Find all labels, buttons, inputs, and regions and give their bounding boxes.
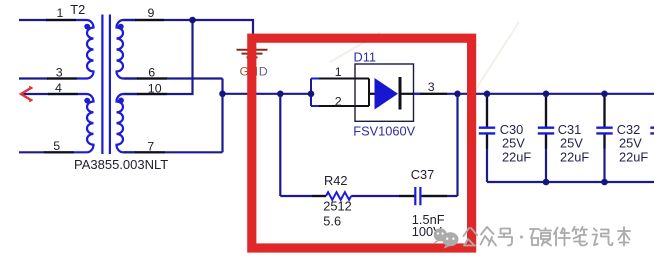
wire C30 riser xyxy=(486,94,488,182)
svg-text:22uF: 22uF xyxy=(502,150,531,165)
svg-text:25V: 25V xyxy=(619,136,642,151)
faint background watermark stroke xyxy=(330,33,380,62)
glyph 公 xyxy=(464,228,478,246)
svg-text:T2: T2 xyxy=(70,2,85,17)
svg-text:25V: 25V xyxy=(560,136,583,151)
wire C32 riser xyxy=(603,94,605,182)
wire cathode output rail xyxy=(458,93,654,95)
svg-text:2512: 2512 xyxy=(323,199,351,214)
wire snubber right riser xyxy=(456,94,458,196)
junction node bracket xyxy=(308,91,315,98)
pin stub C32 xyxy=(603,97,605,149)
watermark wechat icon bubble 2 xyxy=(442,232,458,248)
capacitor C30 plates xyxy=(479,128,495,134)
svg-text:7: 7 xyxy=(147,139,154,153)
svg-text:1: 1 xyxy=(57,6,64,20)
svg-text:6: 6 xyxy=(148,66,155,80)
glyph 件 xyxy=(554,228,570,246)
capacitor partial at right edge xyxy=(650,128,654,134)
pin stub diode pin3 xyxy=(420,93,447,95)
svg-text:3: 3 xyxy=(56,66,63,80)
diode D11 bracket pins 1-2 xyxy=(311,79,375,107)
glyph 硬 xyxy=(530,228,551,246)
svg-text:4: 4 xyxy=(55,81,62,95)
pin stub pin7 xyxy=(135,151,165,153)
junction node top rail xyxy=(189,17,196,24)
junction node C32 top xyxy=(601,91,608,98)
svg-text:PA3855.003NLT: PA3855.003NLT xyxy=(74,157,168,172)
glyph 本 xyxy=(618,227,630,246)
glyph 笔 xyxy=(573,227,588,246)
svg-text:9: 9 xyxy=(148,6,155,20)
wire pin4 lead xyxy=(23,93,49,95)
bright pin segment diode pin3 xyxy=(414,93,422,95)
svg-text:5: 5 xyxy=(53,139,60,153)
watermark text 公众号·硬件笔记本 (vector strokes) xyxy=(464,227,631,246)
wire pin3 lead xyxy=(19,77,48,79)
pin stub C37 right xyxy=(422,195,447,197)
wire snubber bottom row right xyxy=(422,195,458,197)
bright pin segments right windings xyxy=(123,20,138,152)
transformer polarity dot pin4 xyxy=(84,98,90,104)
svg-text:25V: 25V xyxy=(502,136,525,151)
diode D11 body box xyxy=(355,64,414,121)
wire pin7 horizontal xyxy=(123,151,222,153)
diode D11 cathode stub xyxy=(402,93,414,95)
ground symbol GND xyxy=(237,50,268,58)
svg-text:C37: C37 xyxy=(411,167,434,182)
junction node C31 top xyxy=(543,91,550,98)
wire pin9 to GND corner xyxy=(123,20,253,49)
diode D11 cathode bar xyxy=(399,77,402,110)
wire pin10 riser to top rail xyxy=(123,20,192,94)
wire pin6 horizontal xyxy=(123,77,222,79)
junction node diode output xyxy=(454,91,461,98)
pin stub pin9 xyxy=(135,19,164,21)
transformer polarity dot pin1 xyxy=(84,24,90,30)
transformer T2 secondary winding pins 10-7 xyxy=(117,94,124,152)
wire pin5 lead xyxy=(19,151,45,153)
wire diode output pin3 xyxy=(414,93,458,95)
pin stub pin1 xyxy=(46,19,76,21)
wire snubber left riser xyxy=(279,94,281,196)
svg-text:D11: D11 xyxy=(354,49,377,64)
junction node C32 bottom xyxy=(601,179,608,186)
svg-text:D: D xyxy=(259,64,268,78)
wire bottom ground rail xyxy=(487,181,654,183)
svg-text:22uF: 22uF xyxy=(560,150,589,165)
pin stub pin3 xyxy=(47,77,77,79)
junction node snubber left xyxy=(277,91,284,98)
faint background watermark stroke xyxy=(474,22,519,92)
capacitor C37 plates xyxy=(415,187,420,205)
resistor R42 zigzag xyxy=(326,192,351,200)
off-page connector arrow pin4 xyxy=(21,88,32,101)
svg-text:3: 3 xyxy=(428,80,435,94)
watermark wechat icon bubble 1 eyes xyxy=(437,232,444,234)
pin stub pin5 xyxy=(44,151,74,153)
pin stub C30 xyxy=(486,97,488,149)
wire pin1 lead xyxy=(19,19,47,21)
svg-text:2: 2 xyxy=(335,95,342,109)
capacitor C31 plates xyxy=(538,128,554,134)
svg-text:5.6: 5.6 xyxy=(323,213,341,228)
pin stub pin4 xyxy=(48,93,78,95)
transformer polarity dot pin10 xyxy=(118,98,124,104)
watermark wechat icon bubble 1 xyxy=(433,228,447,243)
pin stub pin10 xyxy=(137,93,167,95)
svg-text:10: 10 xyxy=(148,81,162,95)
diode D11 triangle xyxy=(375,78,399,110)
transformer T2 secondary winding pins 9-6 xyxy=(117,20,124,79)
transformer T2 core xyxy=(102,15,110,155)
transformer T2 primary winding pins 1-3 xyxy=(46,20,94,79)
pin stub pin6 xyxy=(137,77,167,79)
red highlight rectangle xyxy=(252,38,472,248)
svg-text:1: 1 xyxy=(335,65,342,79)
junction node pins6-7 xyxy=(219,91,226,98)
wire C31 riser xyxy=(545,94,547,182)
junction node C30 top xyxy=(484,91,491,98)
transformer T2 primary winding pins 4-5 xyxy=(44,94,94,152)
svg-text:FSV1060V: FSV1060V xyxy=(353,124,415,139)
pin stub R42 right / C37 left xyxy=(399,195,414,197)
svg-text:22uF: 22uF xyxy=(619,150,648,165)
glyph 众 xyxy=(481,227,497,246)
watermark wechat icon bubble 2 eyes xyxy=(446,238,455,240)
wire snubber bottom row left xyxy=(280,195,326,197)
glyph 记 xyxy=(593,229,613,246)
separator dot xyxy=(520,235,523,238)
wire pin6-pin7 vertical join xyxy=(221,79,223,153)
wire anode rail xyxy=(223,93,312,95)
pin stub R42 left xyxy=(312,195,326,197)
wire snubber bottom row middle xyxy=(351,195,415,197)
svg-text:R42: R42 xyxy=(324,173,347,188)
capacitor C32 plates xyxy=(596,128,612,134)
glyph 号 xyxy=(499,229,513,246)
junction node C31 bottom xyxy=(543,179,550,186)
pin stub C31 xyxy=(545,97,547,149)
transformer polarity dot pin9 xyxy=(118,24,124,30)
